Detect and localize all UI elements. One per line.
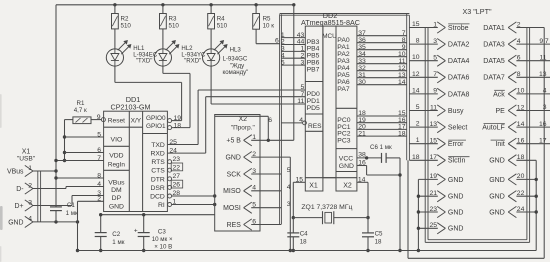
svg-text:X3 "LPT": X3 "LPT" xyxy=(462,7,492,16)
svg-text:PE: PE xyxy=(495,108,505,115)
svg-text:2: 2 xyxy=(97,196,101,203)
svg-text:PA0: PA0 xyxy=(337,37,350,44)
svg-text:8: 8 xyxy=(97,172,101,179)
svg-text:"TXD": "TXD" xyxy=(136,57,153,64)
svg-text:PC3: PC3 xyxy=(337,137,350,144)
svg-text:5: 5 xyxy=(281,59,285,66)
svg-text:26: 26 xyxy=(173,182,181,189)
svg-text:DP: DP xyxy=(112,195,122,202)
svg-text:GND: GND xyxy=(489,209,505,216)
svg-text:AutoLF: AutoLF xyxy=(482,125,505,132)
svg-text:38: 38 xyxy=(358,151,366,158)
svg-text:PD5: PD5 xyxy=(307,105,320,112)
svg-text:3: 3 xyxy=(28,199,32,206)
svg-text:DATA4: DATA4 xyxy=(448,58,470,65)
svg-text:GND: GND xyxy=(448,194,464,201)
svg-text:9: 9 xyxy=(433,88,437,95)
svg-text:10: 10 xyxy=(412,54,420,61)
svg-text:DATA1: DATA1 xyxy=(483,25,505,32)
svg-text:8: 8 xyxy=(416,38,420,45)
svg-text:R2: R2 xyxy=(121,15,129,22)
svg-text:15: 15 xyxy=(412,21,420,28)
svg-text:PA7: PA7 xyxy=(337,86,350,93)
svg-text:22: 22 xyxy=(173,164,181,171)
svg-text:R3: R3 xyxy=(169,15,177,22)
svg-text:7: 7 xyxy=(545,38,549,45)
svg-text:2: 2 xyxy=(416,121,420,128)
svg-text:23: 23 xyxy=(429,206,437,213)
svg-text:19: 19 xyxy=(174,115,182,122)
svg-text:PA1: PA1 xyxy=(337,44,350,51)
svg-text:DATA2: DATA2 xyxy=(448,42,470,49)
svg-text:25: 25 xyxy=(169,139,177,146)
svg-text:C3: C3 xyxy=(158,229,166,236)
svg-text:Init: Init xyxy=(495,141,504,148)
svg-text:DATA3: DATA3 xyxy=(483,42,505,49)
svg-text:CTS: CTS xyxy=(151,168,165,175)
svg-text:37: 37 xyxy=(358,30,366,37)
svg-text:TXD: TXD xyxy=(151,142,165,149)
svg-text:X2: X2 xyxy=(239,116,248,123)
svg-text:1: 1 xyxy=(416,137,420,144)
svg-text:"USB": "USB" xyxy=(17,155,36,162)
svg-text:C6 1 мк: C6 1 мк xyxy=(370,144,392,151)
svg-text:16: 16 xyxy=(358,159,366,166)
svg-text:"Прогр.": "Прогр." xyxy=(231,124,255,131)
svg-text:6: 6 xyxy=(97,147,101,154)
svg-text:R1: R1 xyxy=(77,100,85,107)
svg-text:D-: D- xyxy=(16,186,23,193)
svg-text:13: 13 xyxy=(398,72,406,79)
svg-text:34: 34 xyxy=(358,51,366,58)
svg-text:GND: GND xyxy=(448,209,464,216)
svg-text:GND: GND xyxy=(109,203,124,210)
svg-text:18: 18 xyxy=(174,122,182,129)
svg-text:PA2: PA2 xyxy=(337,51,350,58)
svg-text:RTS: RTS xyxy=(151,159,165,166)
svg-text:PA4: PA4 xyxy=(337,65,350,72)
svg-text:23: 23 xyxy=(173,156,181,163)
svg-text:C2: C2 xyxy=(112,231,120,238)
svg-text:1: 1 xyxy=(433,21,437,28)
svg-text:10: 10 xyxy=(398,51,406,58)
svg-text:PB7: PB7 xyxy=(307,66,320,73)
svg-text:24: 24 xyxy=(169,147,177,154)
svg-text:14: 14 xyxy=(412,87,420,94)
svg-text:5: 5 xyxy=(287,167,291,174)
svg-text:R5: R5 xyxy=(263,15,271,22)
svg-text:Select: Select xyxy=(448,125,468,132)
svg-text:18: 18 xyxy=(398,130,406,137)
svg-text:Reset: Reset xyxy=(108,117,125,124)
svg-text:3: 3 xyxy=(433,38,437,45)
svg-text:32: 32 xyxy=(358,65,366,72)
svg-text:9: 9 xyxy=(539,38,543,45)
svg-text:5: 5 xyxy=(416,104,420,111)
svg-text:GND: GND xyxy=(8,219,23,226)
svg-text:6: 6 xyxy=(275,38,279,45)
svg-text:Busy: Busy xyxy=(448,108,464,115)
svg-text:33: 33 xyxy=(358,58,366,65)
svg-text:DSR: DSR xyxy=(150,185,164,192)
svg-text:3: 3 xyxy=(543,104,547,111)
svg-text:9: 9 xyxy=(402,44,406,51)
svg-text:GND: GND xyxy=(489,177,505,184)
svg-text:10 мк ×: 10 мк × xyxy=(152,236,173,243)
svg-text:ZQ1 7,3728 МГц: ZQ1 7,3728 МГц xyxy=(301,204,352,211)
svg-text:1 мк: 1 мк xyxy=(66,210,78,217)
svg-text:4: 4 xyxy=(543,88,547,95)
svg-text:7: 7 xyxy=(301,91,305,98)
svg-text:10 к: 10 к xyxy=(263,23,275,30)
svg-text:DTR: DTR xyxy=(151,176,165,183)
svg-text:GND: GND xyxy=(489,158,505,165)
svg-text:14: 14 xyxy=(358,177,366,184)
svg-text:21: 21 xyxy=(429,190,437,197)
svg-text:DATA8: DATA8 xyxy=(448,91,470,98)
svg-text:5: 5 xyxy=(97,131,101,138)
svg-text:D+: D+ xyxy=(14,203,23,210)
svg-text:11: 11 xyxy=(539,54,546,61)
svg-text:VBus: VBus xyxy=(7,169,24,176)
svg-text:DCD: DCD xyxy=(150,194,165,201)
svg-text:7: 7 xyxy=(433,71,437,78)
svg-text:11: 11 xyxy=(430,104,437,111)
svg-text:C1: C1 xyxy=(67,202,75,209)
svg-text:2: 2 xyxy=(28,182,32,189)
svg-text:8: 8 xyxy=(402,37,406,44)
svg-text:"RXD": "RXD" xyxy=(184,57,201,64)
svg-text:Strobe: Strobe xyxy=(448,25,469,32)
svg-text:DM: DM xyxy=(111,187,122,194)
svg-text:27: 27 xyxy=(173,173,181,180)
svg-text:1: 1 xyxy=(28,165,32,172)
svg-text:GPIO1: GPIO1 xyxy=(146,123,166,130)
svg-text:PA5: PA5 xyxy=(337,72,350,79)
svg-text:DATA5: DATA5 xyxy=(483,58,505,65)
svg-text:DATA7: DATA7 xyxy=(483,75,505,82)
svg-text:C5: C5 xyxy=(375,231,383,238)
svg-text:GND: GND xyxy=(448,226,464,233)
svg-text:GPIO0: GPIO0 xyxy=(146,115,166,122)
svg-text:DATA6: DATA6 xyxy=(448,75,470,82)
svg-text:4: 4 xyxy=(287,184,291,191)
svg-text:31: 31 xyxy=(358,72,366,79)
svg-text:PA3: PA3 xyxy=(337,58,350,65)
svg-text:MOSI: MOSI xyxy=(223,205,241,212)
svg-text:RES: RES xyxy=(308,123,322,130)
svg-text:VIO: VIO xyxy=(111,136,123,143)
svg-text:GND: GND xyxy=(339,163,354,170)
svg-text:Ack: Ack xyxy=(493,91,505,98)
svg-text:9: 9 xyxy=(97,114,101,121)
svg-text:Error: Error xyxy=(448,141,464,148)
svg-text:GND: GND xyxy=(489,194,505,201)
svg-text:35: 35 xyxy=(358,44,366,51)
svg-text:RES: RES xyxy=(227,222,242,229)
svg-text:12: 12 xyxy=(398,65,406,72)
svg-text:команду": команду" xyxy=(223,69,249,76)
svg-text:17: 17 xyxy=(429,154,437,161)
svg-text:4: 4 xyxy=(299,117,303,124)
svg-text:510: 510 xyxy=(217,23,228,30)
svg-text:510: 510 xyxy=(169,23,180,30)
svg-text:RegIn: RegIn xyxy=(108,161,125,168)
svg-text:11: 11 xyxy=(398,58,405,65)
svg-text:RI: RI xyxy=(158,202,165,209)
svg-text:VCC: VCC xyxy=(339,155,353,162)
svg-text:+: + xyxy=(134,227,138,234)
svg-text:18: 18 xyxy=(375,239,382,246)
svg-text:25: 25 xyxy=(429,222,437,229)
svg-text:17: 17 xyxy=(539,137,547,144)
svg-text:PD1: PD1 xyxy=(307,98,320,105)
svg-text:SCK: SCK xyxy=(227,171,242,178)
svg-text:MISO: MISO xyxy=(223,188,241,195)
svg-text:21: 21 xyxy=(358,130,366,137)
svg-text:1 мк: 1 мк xyxy=(112,239,124,246)
svg-text:+5 В: +5 В xyxy=(226,138,241,145)
svg-text:6: 6 xyxy=(268,117,272,124)
svg-text:13: 13 xyxy=(539,71,547,78)
svg-text:MCU: MCU xyxy=(322,33,337,40)
svg-text:18: 18 xyxy=(300,239,307,246)
svg-text:VBus: VBus xyxy=(108,179,125,186)
svg-text:RXD: RXD xyxy=(150,151,164,158)
svg-text:4: 4 xyxy=(28,216,32,223)
svg-text:3: 3 xyxy=(287,201,291,208)
svg-text:C4: C4 xyxy=(300,231,308,238)
svg-text:R4: R4 xyxy=(217,15,225,22)
svg-text:15: 15 xyxy=(295,177,303,184)
svg-text:11: 11 xyxy=(297,98,304,105)
svg-text:16: 16 xyxy=(539,121,547,128)
svg-text:4: 4 xyxy=(97,181,101,188)
svg-text:12: 12 xyxy=(412,71,420,78)
svg-text:CP2103-GM: CP2103-GM xyxy=(111,103,151,112)
svg-text:HL3: HL3 xyxy=(230,46,242,53)
svg-text:19: 19 xyxy=(429,173,437,180)
svg-text:510: 510 xyxy=(121,23,132,30)
svg-text:7: 7 xyxy=(402,30,406,37)
svg-text:3: 3 xyxy=(301,59,305,66)
svg-text:X/Y: X/Y xyxy=(131,117,142,124)
svg-text:4,7 к: 4,7 к xyxy=(74,107,87,114)
svg-text:7: 7 xyxy=(97,155,101,162)
svg-text:ATmega8515-8AC: ATmega8515-8AC xyxy=(301,18,360,27)
svg-text:× 10 В: × 10 В xyxy=(154,244,172,251)
svg-text:PA6: PA6 xyxy=(337,79,350,86)
svg-text:13: 13 xyxy=(429,121,437,128)
svg-text:30: 30 xyxy=(358,79,366,86)
svg-text:18: 18 xyxy=(412,154,420,161)
svg-text:L-934GC: L-934GC xyxy=(223,55,248,62)
svg-text:VDD: VDD xyxy=(109,153,123,160)
svg-text:GND: GND xyxy=(448,177,464,184)
svg-text:SlctIn: SlctIn xyxy=(448,158,466,165)
svg-text:X2: X2 xyxy=(343,182,352,189)
svg-text:14: 14 xyxy=(398,79,406,86)
svg-text:15: 15 xyxy=(429,138,437,145)
svg-text:GND: GND xyxy=(225,155,240,162)
svg-text:36: 36 xyxy=(358,37,366,44)
svg-text:X1: X1 xyxy=(22,148,31,155)
svg-text:X1: X1 xyxy=(309,182,318,189)
svg-text:5: 5 xyxy=(433,55,437,62)
